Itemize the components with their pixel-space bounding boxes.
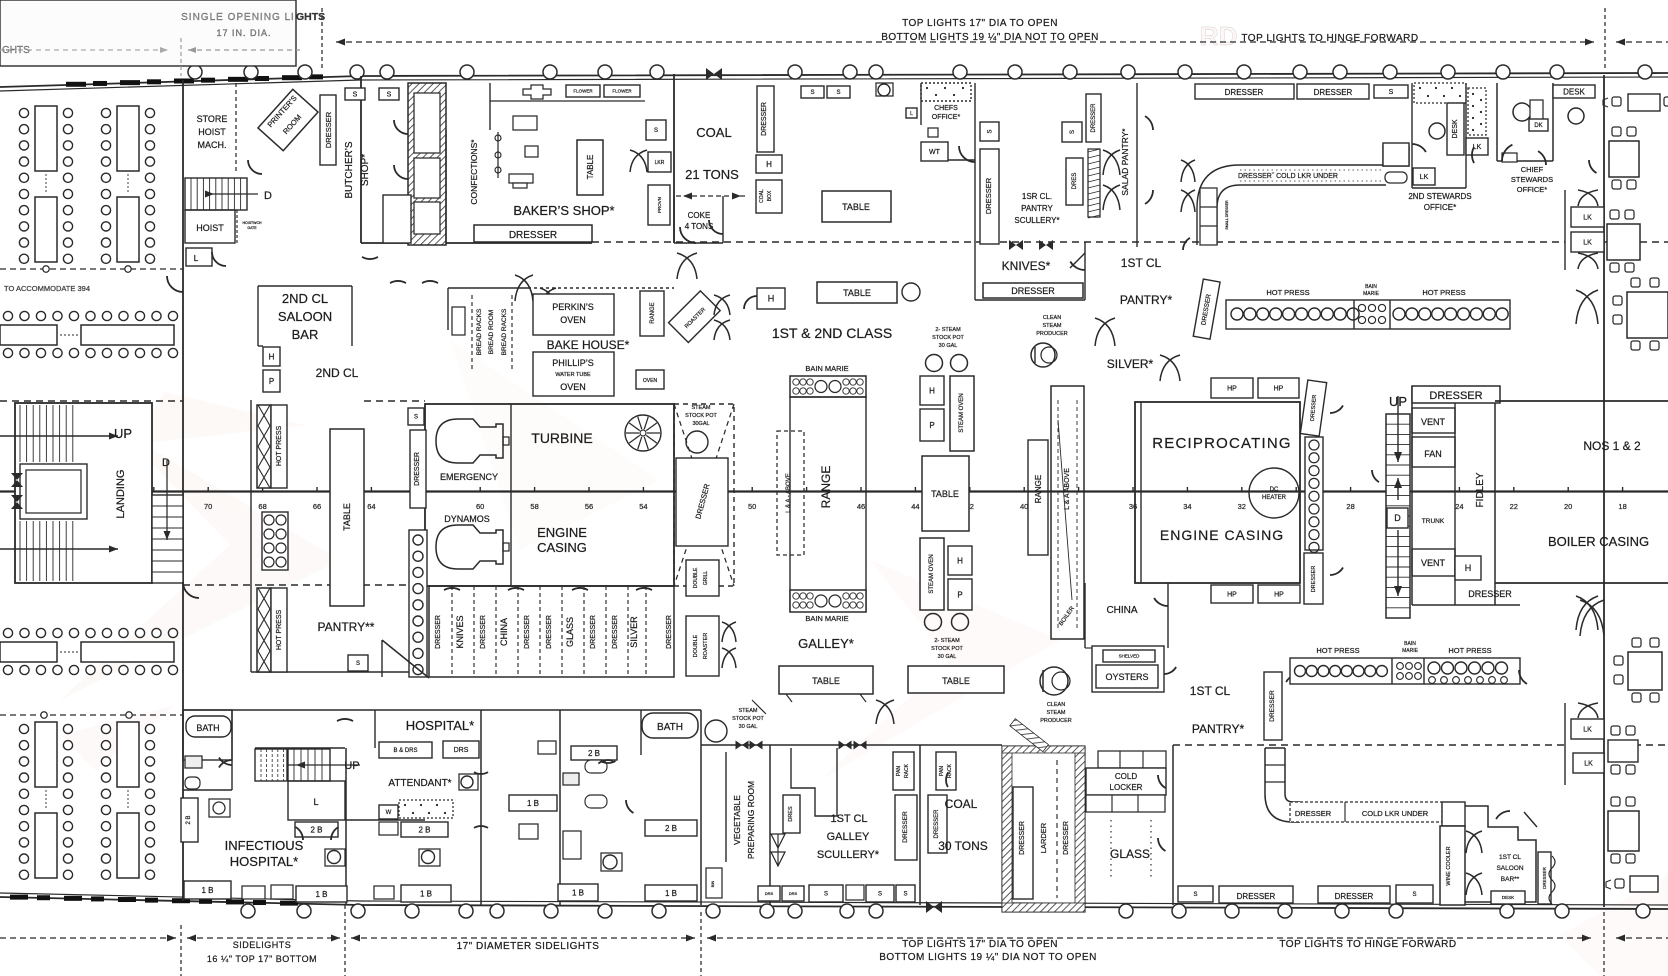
svg-text:1ST CL: 1ST CL — [1121, 256, 1162, 270]
svg-text:OFFICE*: OFFICE* — [932, 114, 961, 121]
hot press strip upper — [257, 405, 271, 488]
L tiny box — [906, 108, 917, 118]
svg-text:MARIE: MARIE — [1363, 291, 1380, 297]
dotted block hosp — [399, 800, 453, 818]
chef office walls — [920, 83, 922, 125]
veg small box — [706, 868, 722, 898]
svg-text:1ST CL: 1ST CL — [1499, 854, 1521, 861]
svg-text:HOT PRESS: HOT PRESS — [276, 610, 283, 651]
hot press cabinet bottom — [1290, 658, 1520, 684]
svg-text:ENGINE: ENGINE — [537, 525, 587, 540]
svg-text:CONFECTIONS*: CONFECTIONS* — [469, 139, 479, 205]
svg-text:DRS: DRS — [789, 891, 798, 896]
clean steam producer bot — [1040, 667, 1068, 695]
dining tables bottom-left cluster B — [117, 722, 139, 787]
DRS box — [443, 741, 479, 758]
svg-text:NOS 1 & 2: NOS 1 & 2 — [1583, 439, 1641, 453]
hospital stairs — [255, 749, 287, 781]
H box coal — [756, 155, 782, 173]
svg-text:DRESSER: DRESSER — [666, 615, 673, 649]
svg-text:BATH: BATH — [657, 722, 683, 733]
larder hatched walls — [1002, 746, 1085, 912]
svg-text:HOT PRESS: HOT PRESS — [1448, 646, 1491, 655]
double roaster box — [686, 616, 719, 676]
hoist stairs — [185, 178, 247, 210]
baker top shelf line — [490, 100, 645, 102]
top portholes — [188, 65, 1652, 79]
wall y243 baker bottom — [361, 242, 592, 244]
svg-text:30 GAL: 30 GAL — [739, 724, 758, 730]
svg-text:34: 34 — [1183, 502, 1191, 511]
table galley mid — [922, 456, 969, 531]
svg-text:CASING: CASING — [537, 540, 587, 555]
svg-text:DRESSER: DRESSER — [1019, 821, 1026, 855]
svg-text:L: L — [313, 797, 318, 807]
table baker — [577, 140, 603, 195]
rdining t8 — [1630, 876, 1658, 892]
svg-text:1ST CL: 1ST CL — [830, 813, 867, 825]
H box g2 — [948, 546, 972, 575]
dresser vert pantryb — [1264, 672, 1282, 740]
range strip right — [1028, 440, 1048, 555]
svg-text:LOCKER: LOCKER — [1110, 783, 1143, 792]
LK right bot — [1571, 719, 1604, 739]
table galley2 — [908, 666, 1004, 693]
svg-text:DRESSER: DRESSER — [1429, 390, 1482, 402]
svg-text:STEAM: STEAM — [692, 405, 711, 411]
svg-text:DRESSER: DRESSER — [934, 809, 940, 839]
svg-text:DRESSER: DRESSER — [1237, 892, 1276, 901]
table 12class2 — [817, 282, 897, 303]
svg-text:HOT PRESS: HOT PRESS — [1266, 288, 1309, 297]
dresser corner tr — [1193, 279, 1220, 339]
chef sq — [928, 128, 938, 137]
counter cells — [1200, 188, 1217, 245]
svg-text:PANTRY: PANTRY — [1021, 204, 1053, 213]
pantry2 walls — [250, 400, 252, 672]
hoist room — [185, 210, 235, 243]
corridor dashed y585 left — [183, 584, 425, 586]
dresser baker — [474, 225, 592, 242]
DRES box sc — [783, 795, 800, 833]
svg-text:RACK: RACK — [947, 763, 953, 778]
2B box att — [401, 822, 448, 837]
HP boxes top — [1211, 378, 1253, 398]
bath right — [642, 713, 698, 738]
svg-text:RECIPROCATING: RECIPROCATING — [1152, 435, 1292, 452]
svg-text:S: S — [387, 91, 392, 98]
hosp beds1 — [242, 886, 265, 899]
svg-text:S: S — [903, 892, 907, 898]
svg-text:44: 44 — [911, 502, 919, 511]
door arc stew — [1412, 144, 1426, 152]
dresser right vert — [1086, 94, 1101, 142]
copper circles col — [409, 530, 427, 677]
table pantry2 — [330, 429, 364, 606]
svg-text:DRESSER: DRESSER — [1468, 589, 1512, 599]
svg-text:PERKIN’S: PERKIN’S — [552, 302, 594, 312]
svg-text:OVEN: OVEN — [560, 315, 586, 325]
fan box — [1412, 437, 1455, 467]
svg-text:HOSPITAL*: HOSPITAL* — [406, 718, 474, 733]
svg-text:BUTCHER’S: BUTCHER’S — [344, 141, 355, 199]
oyster door — [1164, 667, 1176, 674]
scullery walls — [974, 160, 976, 300]
svg-text:HP: HP — [1227, 385, 1237, 392]
svg-text:DOUBLE: DOUBLE — [693, 634, 699, 657]
svg-text:DRESSER: DRESSER — [590, 615, 597, 649]
svg-text:22: 22 — [1510, 502, 1518, 511]
svg-text:COAL: COAL — [759, 189, 765, 203]
X door baker — [630, 150, 647, 172]
svg-text:L: L — [910, 111, 913, 117]
svg-text:17 IN. DIA.: 17 IN. DIA. — [216, 28, 271, 38]
svg-text:B & DRS: B & DRS — [393, 748, 417, 754]
bain marie grid top — [790, 376, 866, 397]
flower box1 — [566, 85, 600, 97]
stockpot circles low — [925, 614, 942, 631]
frame numbers — [41, 502, 1627, 511]
svg-text:TOP LIGHTS TO HINGE FORWAR: TOP LIGHTS TO HINGE FORWARD — [1241, 33, 1418, 44]
stockpot circles up — [926, 355, 943, 372]
svg-text:PANTRY**: PANTRY** — [318, 620, 375, 634]
svg-text:CHINA: CHINA — [1106, 605, 1137, 616]
svg-text:DRESSER: DRESSER — [1225, 88, 1264, 97]
LK box mid — [1466, 138, 1488, 155]
larder dresser box — [1013, 787, 1033, 899]
svg-text:SILVER*: SILVER* — [1107, 357, 1154, 371]
dining row tables low-left — [3, 628, 12, 637]
fidley walls — [1411, 386, 1413, 605]
vent box1 — [1412, 408, 1455, 433]
hot press strip lower — [257, 588, 271, 672]
mixer base — [509, 174, 533, 183]
svg-text:STEAM: STEAM — [1047, 710, 1066, 716]
svg-text:MARIE: MARIE — [1402, 648, 1419, 654]
stew circle — [1429, 123, 1445, 139]
svg-text:DC: DC — [1270, 487, 1279, 493]
svg-text:HOIST: HOIST — [198, 127, 226, 137]
svg-text:54: 54 — [639, 502, 647, 511]
svg-text:20: 20 — [1564, 502, 1572, 511]
svg-text:BAKE HOUSE*: BAKE HOUSE* — [547, 338, 630, 352]
dresser sc vert — [895, 795, 917, 860]
pan rack box — [893, 752, 914, 790]
svg-text:DRESSER: DRESSER — [1091, 103, 1097, 133]
dresser shaft box — [676, 458, 728, 546]
svg-text:TOP LIGHTS 17" DIA TO OP: TOP LIGHTS 17" DIA TO OPEN — [902, 18, 1058, 29]
svg-text:GHTS: GHTS — [296, 11, 325, 23]
svg-text:STEAM OVEN: STEAM OVEN — [929, 554, 935, 593]
door arcs corr upper — [362, 257, 378, 259]
svg-text:H: H — [929, 386, 935, 395]
svg-text:CHEFS: CHEFS — [934, 105, 958, 112]
svg-text:30 TONS: 30 TONS — [938, 839, 988, 853]
1B boxes r — [558, 884, 598, 901]
svg-text:OVEN: OVEN — [560, 382, 586, 392]
svg-text:DRESSER: DRESSER — [761, 102, 768, 136]
svg-text:17" DIAMETER SIDELIGHTS: 17" DIAMETER SIDELIGHTS — [457, 941, 600, 952]
S boxes mid — [801, 86, 824, 98]
dresser eng vert — [410, 430, 426, 508]
glass arcs — [1158, 775, 1166, 788]
dashed shaft — [674, 404, 734, 586]
svg-text:DRESSER: DRESSER — [1314, 88, 1353, 97]
svg-text:FLOWER: FLOWER — [573, 89, 593, 94]
svg-text:H: H — [768, 294, 775, 304]
svg-text:STOCK POT: STOCK POT — [685, 413, 717, 419]
2B boxes r — [571, 746, 617, 760]
printers room — [258, 89, 318, 150]
butcher arcs — [394, 120, 408, 134]
wine cooler — [1440, 826, 1465, 905]
svg-text:DRESSER: DRESSER — [524, 615, 531, 649]
table 12class — [822, 191, 891, 222]
wall scullery right — [919, 745, 921, 905]
svg-text:COLD: COLD — [1115, 772, 1137, 781]
svg-text:BAR**: BAR** — [1501, 876, 1520, 883]
grey dim line left — [0, 49, 168, 51]
bain marie grid bottom — [790, 590, 866, 612]
svg-text:SHOP*: SHOP* — [360, 154, 371, 186]
svg-text:STOCK POT: STOCK POT — [732, 716, 764, 722]
svg-text:GLASS: GLASS — [565, 617, 575, 647]
side stair down — [152, 495, 183, 583]
bakehouse dotted wall — [528, 287, 674, 289]
rdining X doors — [1576, 290, 1598, 324]
wall x674 coal — [673, 74, 675, 243]
bottom dim lines — [0, 937, 176, 939]
engine casing divider — [510, 404, 512, 586]
svg-text:KNIVES*: KNIVES* — [1002, 259, 1051, 273]
svg-text:TABLE: TABLE — [842, 202, 870, 212]
svg-text:S: S — [878, 892, 882, 898]
recip engine outer — [1135, 402, 1300, 583]
bed att — [379, 822, 398, 835]
dining dashed y715 — [0, 714, 183, 716]
svg-text:GHTS: GHTS — [2, 45, 30, 56]
svg-text:GALLEY*: GALLEY* — [798, 636, 854, 651]
dc heater — [1249, 468, 1299, 518]
svg-text:21 TONS: 21 TONS — [685, 167, 739, 182]
svg-text:HOIST: HOIST — [196, 223, 224, 233]
door arcs counter — [1183, 238, 1190, 250]
svg-text:DRESSERˇ COLD LKR UNDER: DRESSERˇ COLD LKR UNDER — [1238, 173, 1338, 180]
salad doorX — [1103, 150, 1120, 175]
svg-text:50: 50 — [748, 502, 756, 511]
svg-text:H: H — [269, 352, 275, 361]
svg-text:SINGLE OPENING LI: SINGLE OPENING LI — [181, 12, 295, 23]
svg-text:S: S — [414, 415, 418, 421]
H box bar — [263, 347, 280, 366]
desk vert box — [1447, 103, 1464, 155]
door arc hoist — [212, 252, 226, 266]
svg-text:CLEAN: CLEAN — [1047, 702, 1065, 708]
chief circle — [1513, 103, 1531, 121]
door arc H — [744, 296, 757, 309]
svg-text:TABLE: TABLE — [812, 676, 840, 686]
svg-text:2 B: 2 B — [665, 824, 677, 833]
hospital right wall — [700, 710, 702, 905]
svg-text:MACH.: MACH. — [198, 140, 227, 150]
svg-text:PAN: PAN — [939, 766, 945, 776]
dining tables bottom-left cluster A — [35, 722, 57, 787]
cold lkr strip br — [1290, 802, 1442, 822]
svg-text:SCULLERY*: SCULLERY* — [1014, 216, 1059, 225]
svg-text:DESK: DESK — [1452, 119, 1459, 138]
svg-text:DRESSER: DRESSER — [1542, 866, 1547, 889]
larder diag hatch — [1010, 719, 1049, 752]
sink top — [878, 84, 890, 96]
china walls — [1084, 583, 1086, 648]
corridor dashed y242 — [592, 241, 1565, 243]
LK right top — [1571, 207, 1604, 227]
svg-text:W: W — [386, 810, 392, 816]
svg-text:1ST & 2ND CLASS: 1ST & 2ND CLASS — [772, 325, 892, 341]
boiler strip — [1051, 386, 1084, 639]
dresser boxes bottom2 — [1318, 886, 1390, 903]
svg-text:30GAL: 30GAL — [692, 421, 709, 427]
wine X — [1466, 831, 1482, 853]
svg-text:58: 58 — [530, 502, 538, 511]
svg-text:SIDELIGHTS: SIDELIGHTS — [233, 940, 292, 950]
svg-text:SILVER: SILVER — [629, 616, 639, 648]
top valve bowtie — [706, 68, 722, 80]
svg-text:CHIEF: CHIEF — [1521, 165, 1544, 174]
svg-text:P: P — [269, 377, 274, 386]
svg-text:2 B: 2 B — [310, 825, 322, 834]
svg-text:PAN: PAN — [896, 766, 902, 776]
dresser butcher — [320, 95, 336, 165]
svg-text:BATH: BATH — [196, 723, 219, 733]
svg-text:1 B: 1 B — [527, 799, 539, 808]
svg-text:CHINA: CHINA — [499, 618, 509, 646]
L room — [288, 781, 345, 820]
svg-text:STEAM OVEN: STEAM OVEN — [959, 393, 965, 432]
svg-text:1 B: 1 B — [420, 889, 432, 898]
svg-text:FLOWER: FLOWER — [612, 89, 632, 94]
hosp wall x481 — [480, 710, 482, 905]
S box scullery2 — [1062, 122, 1082, 142]
table galley1 — [779, 666, 873, 694]
toilet att — [422, 851, 435, 864]
chief sink circle — [1568, 108, 1584, 124]
svg-text:36: 36 — [1129, 502, 1137, 511]
S dresser boxes bottom — [1178, 886, 1213, 902]
svg-text:BIN: BIN — [710, 881, 715, 888]
engine casing outer — [425, 404, 674, 586]
dresser boxes top — [1195, 84, 1294, 99]
scullery L counter — [791, 748, 837, 816]
dining dashed y269 — [0, 268, 183, 270]
svg-text:STEAM: STEAM — [739, 708, 758, 714]
svg-text:P: P — [929, 421, 934, 430]
BDRS box — [379, 742, 432, 758]
chief small box — [1502, 153, 1517, 162]
svg-text:EMERGENCY: EMERGENCY — [440, 472, 498, 482]
svg-text:DESK: DESK — [1502, 895, 1514, 900]
svg-text:UP: UP — [114, 426, 132, 441]
dresser strip r1 — [1300, 380, 1326, 436]
hosp room3 boxes — [509, 795, 557, 811]
range center block — [790, 397, 866, 611]
double grill box — [686, 560, 719, 596]
svg-text:LARDER: LARDER — [1039, 822, 1048, 853]
svg-text:PRODUCER: PRODUCER — [1036, 331, 1068, 337]
stew office dotted1 — [1414, 83, 1466, 103]
corner diagonal — [382, 640, 429, 678]
svg-text:40: 40 — [1020, 502, 1028, 511]
svg-text:S: S — [1193, 892, 1197, 898]
door arc coke — [709, 220, 723, 234]
phillips oven — [533, 352, 614, 396]
svg-text:70: 70 — [204, 502, 212, 511]
1B boxes l — [184, 881, 231, 899]
rdining t5 — [1628, 652, 1662, 690]
corridor dashed y745 fardash — [1610, 744, 1668, 746]
grand staircase — [15, 403, 152, 583]
svg-text:2 B: 2 B — [418, 825, 430, 834]
counter dots — [1240, 169, 1384, 171]
bed att2 — [374, 886, 394, 899]
svg-text:GATE: GATE — [247, 226, 257, 230]
svg-text:18: 18 — [1618, 502, 1626, 511]
svg-text:ATTENDANT*: ATTENDANT* — [388, 778, 451, 789]
curved counter br — [1265, 748, 1300, 822]
svg-text:DRESSER: DRESSER — [414, 452, 421, 486]
svg-text:1 B: 1 B — [665, 889, 677, 898]
2B box — [295, 822, 338, 837]
bread dashes — [471, 295, 473, 372]
svg-text:D: D — [1394, 513, 1401, 523]
svg-text:DRESSER: DRESSER — [480, 615, 487, 649]
dresser strip r2 — [1304, 553, 1323, 604]
svg-text:RANGE: RANGE — [650, 302, 656, 323]
door arc chef — [959, 146, 975, 162]
svg-text:2 B: 2 B — [186, 815, 192, 824]
svg-text:S: S — [836, 90, 840, 96]
svg-text:DRESSER: DRESSER — [1335, 892, 1374, 901]
svg-text:STEAM: STEAM — [1043, 323, 1062, 329]
coal arcs — [946, 773, 948, 787]
top dim line — [321, 8, 323, 70]
svg-text:SALOON: SALOON — [1496, 865, 1523, 872]
svg-text:TURBINE: TURBINE — [531, 430, 592, 446]
svg-text:64: 64 — [367, 502, 375, 511]
door arc printers — [248, 160, 262, 174]
svg-text:2ND CL: 2ND CL — [316, 366, 359, 380]
mixer sq — [525, 146, 538, 157]
galley table feet — [786, 694, 792, 702]
X door silver — [1160, 355, 1180, 381]
svg-text:1ST CL: 1ST CL — [1190, 684, 1231, 698]
hull bottom line — [0, 897, 1668, 909]
svg-text:PANTRY*: PANTRY* — [1192, 722, 1245, 736]
svg-text:RACK: RACK — [904, 763, 910, 778]
dresser knives — [983, 283, 1083, 298]
svg-text:BAIN MARIE: BAIN MARIE — [805, 614, 848, 623]
svg-text:S: S — [1412, 892, 1416, 898]
steam oven g2 — [920, 538, 944, 610]
dining tables top-left cluster B — [117, 106, 139, 171]
W box — [379, 805, 398, 819]
svg-text:H: H — [1465, 563, 1472, 573]
svg-text:DRESSER: DRESSER — [324, 111, 333, 148]
svg-text:SALOON: SALOON — [278, 309, 332, 324]
saloon bar outline — [1465, 806, 1536, 902]
dresser strip br2 — [1538, 852, 1551, 904]
svg-text:ROASTER: ROASTER — [703, 633, 709, 660]
